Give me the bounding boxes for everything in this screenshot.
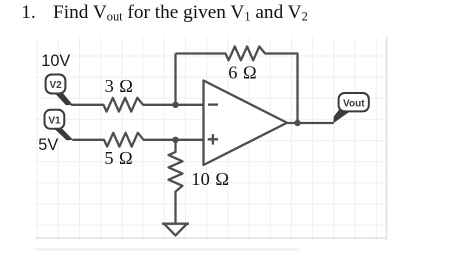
svg-text:1.: 1. [21, 2, 35, 23]
faint smudge line [35, 248, 300, 251]
svg-text:6 Ω: 6 Ω [228, 63, 257, 83]
grid bottom boundary [35, 237, 387, 239]
wire: feedback top with 6 ohm resistor [176, 47, 298, 124]
node B junction dot [172, 137, 178, 143]
wire: output [287, 122, 334, 124]
svg-text:V2: V2 [49, 80, 62, 91]
grid right boundary [386, 37, 388, 240]
svg-text:Find Vout for the given V1 and: Find Vout for the given V1 and V2 [53, 2, 308, 24]
wire: feedback riser from node A [174, 54, 176, 105]
op-amp U1 [204, 81, 288, 166]
op-amp plus sign [208, 134, 218, 145]
tag Vout (flag + tail) [333, 93, 369, 123]
svg-text:10 Ω: 10 Ω [191, 169, 229, 189]
svg-text:3 Ω: 3 Ω [105, 76, 134, 96]
svg-text:V1: V1 [48, 115, 61, 126]
wire: node B down through 10 ohm to ground [169, 140, 183, 224]
output node junction dot [294, 120, 300, 126]
node A junction dot [172, 102, 178, 108]
tag V2 (flag + tail) [46, 75, 73, 106]
svg-text:Vout: Vout [343, 99, 365, 110]
op-amp minus sign [208, 103, 218, 105]
svg-text:5 Ω: 5 Ω [104, 148, 133, 168]
svg-text:5V: 5V [38, 136, 58, 154]
ground [162, 224, 189, 236]
wire: non-inverting input net (V1 -> 5ohm -> node B -> op-amp plus) [73, 133, 204, 147]
svg-text:10V: 10V [41, 52, 70, 70]
grid background [35, 37, 387, 240]
wire: inverting input net (V2 -> 3ohm -> node A -> op-amp minus) [71, 98, 204, 112]
tag V1 (flag + tail) [45, 110, 74, 140]
